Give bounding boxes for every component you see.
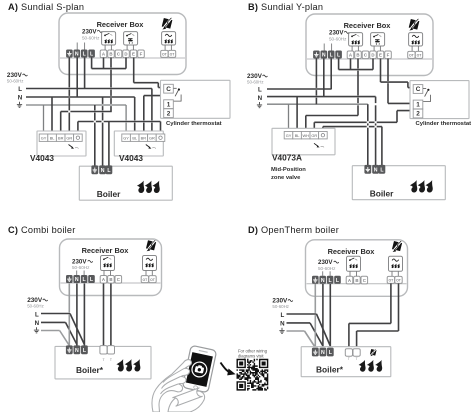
svg-text:2: 2 — [416, 111, 420, 118]
svg-text:50-60Hz: 50-60Hz — [82, 35, 100, 40]
svg-text:Boiler: Boiler — [97, 189, 121, 199]
svg-text:230V: 230V — [329, 29, 344, 36]
svg-text:T: T — [110, 358, 112, 362]
svg-text:L: L — [281, 312, 285, 319]
svg-text:N: N — [374, 167, 378, 173]
svg-text:N: N — [280, 321, 285, 328]
svg-text:Boiler: Boiler — [370, 188, 394, 198]
svg-text:Receiver Box: Receiver Box — [82, 246, 130, 255]
svg-text:V4043: V4043 — [119, 153, 143, 163]
svg-text:BL: BL — [50, 136, 56, 141]
svg-text:N: N — [35, 320, 40, 327]
svg-text:Receiver Box: Receiver Box — [344, 21, 392, 30]
svg-text:GR: GR — [149, 136, 155, 141]
svg-text:D: D — [371, 53, 374, 58]
svg-text:B: B — [109, 52, 112, 57]
svg-text:BL: BL — [295, 133, 301, 138]
svg-text:50-60Hz: 50-60Hz — [329, 36, 347, 41]
svg-text:Boiler*: Boiler* — [316, 365, 344, 375]
svg-text:T: T — [348, 357, 350, 361]
svg-text:A) Sundial S-plan: A) Sundial S-plan — [8, 2, 84, 12]
svg-text:Cylinder thermostat: Cylinder thermostat — [416, 121, 472, 127]
svg-text:Receiver Box: Receiver Box — [328, 247, 376, 256]
svg-text:GY: GY — [286, 133, 292, 138]
svg-text:E: E — [132, 52, 135, 57]
svg-text:C) Combi boiler: C) Combi boiler — [8, 225, 76, 235]
svg-text:diagrams visit: diagrams visit — [238, 354, 264, 359]
svg-text:V4043: V4043 — [30, 153, 54, 163]
svg-text:T: T — [102, 358, 104, 362]
svg-text:230V: 230V — [82, 28, 97, 35]
svg-text:50-60Hz: 50-60Hz — [72, 265, 90, 270]
svg-text:1: 1 — [416, 102, 420, 109]
svg-text:WH: WH — [302, 133, 309, 138]
svg-text:L: L — [35, 311, 39, 318]
svg-text:zone valve: zone valve — [271, 175, 301, 181]
svg-text:N: N — [101, 168, 105, 174]
svg-text:V4073A: V4073A — [272, 153, 302, 163]
svg-text:50-60Hz: 50-60Hz — [7, 79, 24, 84]
svg-text:50-60Hz: 50-60Hz — [27, 304, 44, 309]
svg-text:B: B — [355, 278, 358, 283]
svg-text:N: N — [75, 277, 79, 283]
svg-text:50-60Hz: 50-60Hz — [318, 266, 336, 271]
svg-text:B: B — [356, 53, 359, 58]
svg-text:E: E — [379, 53, 382, 58]
svg-text:T: T — [356, 357, 358, 361]
svg-text:C: C — [416, 86, 421, 93]
svg-text:D: D — [124, 52, 127, 57]
svg-text:N: N — [18, 95, 23, 102]
svg-text:B: B — [109, 277, 112, 282]
svg-text:GR: GR — [311, 133, 317, 138]
svg-text:N: N — [75, 52, 79, 58]
svg-text:D) OpenTherm boiler: D) OpenTherm boiler — [248, 225, 339, 235]
svg-text:N: N — [321, 278, 325, 284]
svg-text:2: 2 — [167, 110, 171, 117]
svg-text:L: L — [258, 87, 262, 94]
svg-text:B) Sundial Y-plan: B) Sundial Y-plan — [248, 2, 323, 12]
svg-text:L: L — [18, 86, 22, 93]
svg-text:N: N — [322, 53, 326, 59]
svg-text:BR: BR — [141, 136, 147, 141]
svg-text:F: F — [140, 52, 143, 57]
svg-text:GY: GY — [41, 136, 47, 141]
svg-text:Cylinder thermostat: Cylinder thermostat — [166, 121, 222, 127]
svg-text:N: N — [321, 350, 325, 356]
svg-text:F: F — [387, 53, 390, 58]
svg-text:50-60Hz: 50-60Hz — [247, 80, 264, 85]
svg-text:BR: BR — [58, 136, 64, 141]
svg-text:N: N — [258, 95, 263, 102]
svg-text:GY: GY — [123, 136, 129, 141]
svg-text:C: C — [166, 86, 171, 93]
svg-text:BL: BL — [132, 136, 138, 141]
svg-text:50-60Hz: 50-60Hz — [272, 304, 289, 309]
svg-text:1: 1 — [167, 101, 171, 108]
svg-text:GR: GR — [66, 136, 72, 141]
svg-text:Boiler*: Boiler* — [76, 365, 104, 375]
svg-text:N: N — [75, 348, 79, 354]
svg-text:Mid-Position: Mid-Position — [271, 167, 306, 173]
svg-text:Receiver Box: Receiver Box — [97, 20, 145, 29]
